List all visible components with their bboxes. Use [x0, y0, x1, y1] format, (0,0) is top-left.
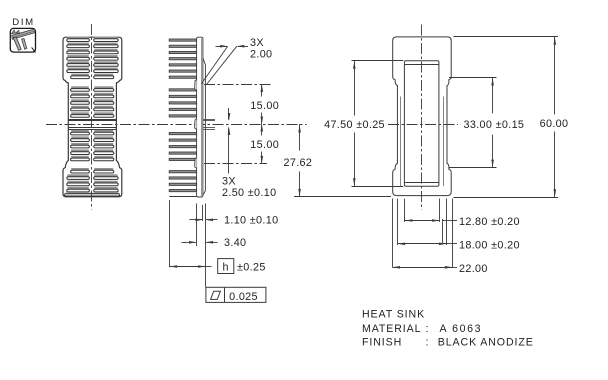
dimension 22.00	[393, 267, 453, 269]
extension line fin tip	[169, 200, 171, 267]
svg-text::: :	[426, 337, 429, 349]
dimension 3X 2.00 slanted extension lines	[201, 46, 227, 84]
DIM caliper icon box	[10, 28, 35, 52]
side view fins - lower waist	[169, 133, 196, 161]
top view center slot	[404, 61, 439, 186]
dimension 1.10	[189, 219, 202, 221]
side view front boss top	[195, 80, 197, 91]
svg-text:2.00: 2.00	[250, 48, 272, 60]
top view outline	[393, 37, 452, 196]
top view slot inner edge bottom	[404, 182, 439, 184]
side view front boss middle	[195, 119, 197, 130]
front view middle boss strip lines	[68, 120, 116, 130]
front view fin slots - bottom flange	[65, 168, 120, 196]
side view fins - bottom flange	[169, 171, 196, 197]
dimension 3X 2.00 arrows	[216, 46, 228, 48]
top view slot inner edge top	[404, 64, 439, 66]
svg-text:DIM: DIM	[12, 17, 34, 28]
side view fins - top flange	[169, 39, 196, 78]
feature control frame flatness 0.025	[206, 287, 266, 302]
side view fins - upper waist	[169, 89, 196, 117]
extension line rib tip	[205, 204, 207, 288]
svg-text:3.40: 3.40	[224, 237, 246, 249]
bottom edge extension line for 27.62	[294, 196, 391, 198]
dimension 33.00 extension lines	[449, 77, 497, 79]
side view rear rib	[203, 58, 206, 195]
lower tab centerline	[204, 163, 267, 165]
svg-text:3X: 3X	[250, 37, 264, 49]
dimension 27.62	[299, 124, 301, 151]
caliper icon	[11, 29, 36, 53]
dimension 18.00	[398, 243, 447, 245]
svg-text::: :	[426, 323, 429, 335]
svg-text:2.50 ±0.10: 2.50 ±0.10	[222, 187, 276, 199]
svg-text:15.00: 15.00	[250, 100, 279, 112]
svg-text:12.80 ±0.20: 12.80 ±0.20	[459, 216, 520, 228]
dimension 3X 2.50 arrows	[228, 108, 230, 120]
dimension 60.00 extension lines	[454, 36, 559, 38]
side view middle boss edge lines	[203, 120, 215, 130]
horizontal centerline through front and side views	[46, 124, 307, 126]
svg-text:MATERIAL: MATERIAL	[362, 323, 421, 335]
extension line plate rear face	[202, 205, 204, 221]
dimension h	[170, 266, 206, 268]
front view vertical centerline	[91, 24, 93, 210]
svg-text:18.00 ±0.20: 18.00 ±0.20	[459, 240, 520, 252]
upper tab centerline	[204, 84, 271, 86]
svg-text:47.50 ±0.25: 47.50 ±0.25	[324, 119, 385, 131]
svg-text:FINISH: FINISH	[362, 337, 402, 349]
dimension 15.00 lower	[261, 124, 263, 136]
svg-text:A 6063: A 6063	[440, 323, 483, 335]
top view channel wall line right	[443, 97, 445, 187]
dimension 47.50	[354, 61, 356, 116]
dimension 47.50 extension lines	[352, 60, 404, 62]
svg-text:BLACK ANODIZE: BLACK ANODIZE	[438, 337, 534, 349]
dimension 60.00	[554, 37, 556, 115]
side view plate inner edge line	[201, 38, 203, 196]
svg-text:1.10 ±0.10: 1.10 ±0.10	[224, 215, 278, 227]
svg-text:h: h	[223, 261, 229, 273]
svg-text:22.00: 22.00	[459, 263, 488, 275]
dimension 3.40	[182, 242, 196, 244]
svg-text:0.025: 0.025	[229, 291, 258, 303]
front view fin slots - top flange	[67, 37, 118, 79]
side view base plate	[197, 37, 203, 197]
svg-text:±0.25: ±0.25	[237, 261, 266, 273]
bottom extension lines of top view	[392, 199, 394, 268]
svg-text:33.00 ±0.15: 33.00 ±0.15	[463, 119, 524, 131]
side view front boss bottom	[195, 158, 197, 169]
svg-text:60.00: 60.00	[540, 118, 569, 130]
dimension 15.00 upper	[261, 84, 263, 96]
svg-text:HEAT SINK: HEAT SINK	[362, 308, 425, 320]
front view outline	[63, 37, 122, 197]
top view channel wall line left	[400, 97, 402, 187]
top view vertical centerline	[421, 25, 423, 211]
svg-text:3X: 3X	[222, 175, 236, 187]
svg-text:15.00: 15.00	[250, 139, 279, 151]
top view horizontal centerline	[388, 124, 458, 126]
front view fin slots - lower waist	[71, 130, 114, 161]
extension line plate front face	[196, 204, 198, 247]
dimension 12.80	[405, 220, 440, 222]
svg-text:27.62: 27.62	[284, 157, 313, 169]
dimension 33.00	[492, 78, 494, 114]
front view fin slots - upper waist	[71, 86, 114, 117]
